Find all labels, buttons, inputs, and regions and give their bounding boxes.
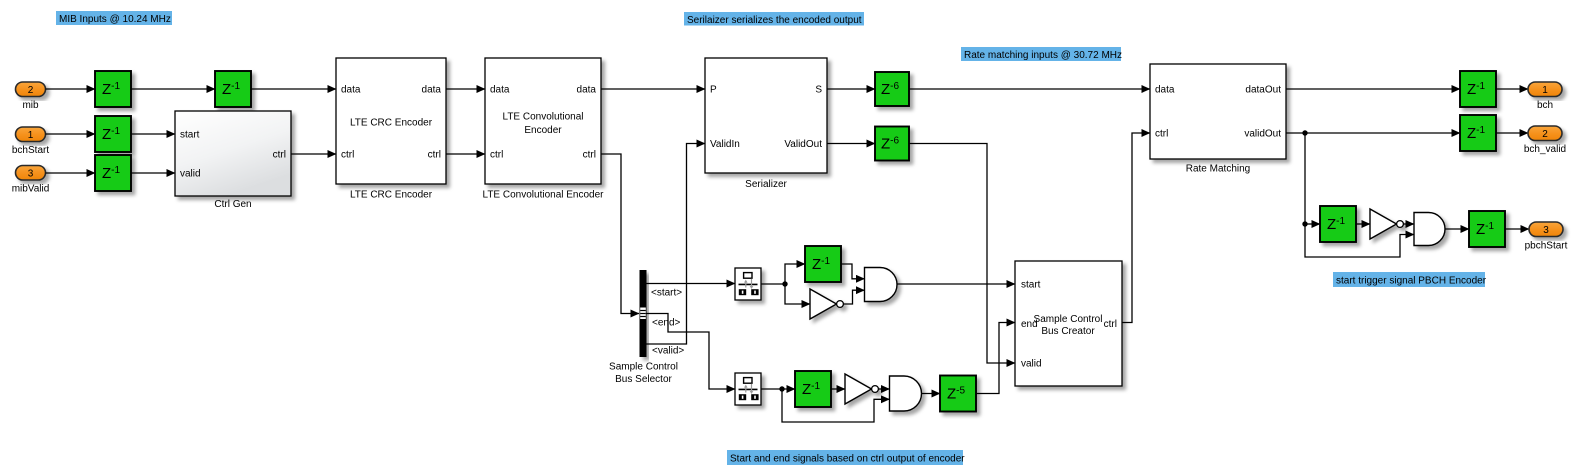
annotation: Start and end signals based on ctrl output of encoder (727, 450, 965, 465)
svg-text:MIB Inputs @ 10.24 MHz: MIB Inputs @ 10.24 MHz (59, 14, 171, 25)
svg-text:2: 2 (28, 85, 34, 96)
svg-text:ctrl: ctrl (428, 150, 441, 161)
svg-text:ctrl: ctrl (1104, 319, 1117, 330)
svg-text:Start and end signals based on: Start and end signals based on ctrl outp… (730, 454, 965, 465)
svg-text:1: 1 (28, 130, 34, 141)
wire icon2 to end-path branch (761, 388, 795, 390)
svg-text:mibValid: mibValid (12, 184, 50, 195)
wire AND3 to delay Z-1 pbch (1445, 228, 1469, 230)
svg-text:dataOut: dataOut (1245, 85, 1281, 96)
svg-text:mib: mib (22, 100, 39, 111)
delay block Z-5 (940, 376, 976, 412)
svg-text:pbchStart: pbchStart (1525, 241, 1568, 252)
svg-text:start: start (180, 130, 200, 141)
AND gate 1 (865, 268, 898, 302)
conversion icon block 2 (735, 373, 761, 405)
wire delay start to AND1 input1 (841, 264, 865, 279)
conversion icon block 1 (735, 268, 761, 300)
inport 3 mibValid (12, 166, 50, 195)
delay block Z-1 pbch (1469, 211, 1505, 247)
wire Bus Selector valid output to Serializer ValidIn (647, 144, 706, 345)
svg-text:ctrl: ctrl (341, 150, 354, 161)
wire NOT2 to AND2 input1 (878, 388, 889, 390)
svg-text:LTE Convolutional Encoder: LTE Convolutional Encoder (483, 190, 605, 201)
svg-text:Rate matching inputs @ 30.72 M: Rate matching inputs @ 30.72 MHz (964, 50, 1122, 61)
svg-text:ValidIn: ValidIn (710, 139, 740, 150)
svg-text:bchStart: bchStart (12, 145, 49, 156)
svg-text:Bus Selector: Bus Selector (615, 374, 672, 385)
wire Serializer S to delay Z-6 data (827, 88, 875, 90)
wire Bus Selector start output to conversion icon 1 (647, 283, 736, 285)
subsystem LTE Convolutional Encoder (483, 58, 605, 201)
wire trigger branch to delay Z-1 trig (1305, 223, 1320, 225)
NOT gate 3 (1370, 209, 1403, 239)
wire validOut branch down to trigger branch (1304, 133, 1306, 224)
wire AND1 to Bus Creator start (897, 283, 1015, 285)
wire Z-1 bch_valid to outport 2 (1496, 132, 1528, 134)
svg-text:start trigger signal PBCH Enco: start trigger signal PBCH Encoder (1336, 276, 1487, 287)
delay block Z-1 bch (1460, 71, 1496, 107)
wire delay a2 to CRC data (251, 88, 336, 90)
wire branch bypass to AND2 input2 (782, 389, 890, 422)
wire bchStart to delay Z-1 b1 (46, 133, 96, 135)
svg-text:<start>: <start> (651, 288, 682, 299)
wire Bus Selector end output to conversion icon 2 (647, 314, 736, 390)
wire Z-1 bch to outport 1 (1496, 88, 1528, 90)
delay block Z-1 b1 (95, 116, 131, 152)
svg-text:ctrl: ctrl (583, 150, 596, 161)
wire Conv ctrl to Bus Selector input (601, 154, 639, 314)
wire mibValid to delay Z-1 c1 (46, 172, 96, 174)
outport 1 bch (1528, 82, 1562, 111)
svg-text:LTE Convolutional: LTE Convolutional (503, 112, 584, 123)
svg-text:LTE CRC Encoder: LTE CRC Encoder (350, 190, 433, 201)
svg-text:bch_valid: bch_valid (1524, 144, 1566, 155)
svg-text:bch: bch (1537, 100, 1553, 111)
wire Z-6 data to Rate Matching data (909, 88, 1150, 90)
outport 2 bch_valid (1524, 126, 1566, 155)
svg-text:ValidOut: ValidOut (784, 139, 822, 150)
delay block Z-1 end (795, 371, 831, 407)
svg-text:3: 3 (28, 169, 34, 180)
delay block Z-1 a1 (95, 71, 131, 107)
wire Serializer ValidOut to delay Z-6 valid (827, 143, 875, 145)
annotation: MIB Inputs @ 10.24 MHz (56, 11, 172, 25)
annotation: Serilaizer serializes the encoded output (684, 12, 864, 26)
svg-text:data: data (1155, 85, 1175, 96)
svg-text:data: data (577, 85, 597, 96)
svg-text:P: P (710, 85, 717, 96)
svg-text:Encoder: Encoder (524, 125, 562, 136)
subsystem Rate Matching (1150, 64, 1286, 175)
wire NOT3 to AND3 input1 (1403, 223, 1414, 225)
NOT gate 2 (845, 374, 878, 404)
wire Conv data to Serializer P (601, 88, 705, 90)
delay block Z-6 data (875, 72, 909, 106)
svg-text:LTE CRC Encoder: LTE CRC Encoder (350, 118, 433, 129)
wire NOT1 to AND1 input2 (843, 290, 864, 304)
outport 3 pbchStart (1525, 222, 1568, 252)
wire Bus Creator ctrl to Rate Matching ctrl (1122, 133, 1150, 323)
svg-text:data: data (490, 85, 510, 96)
delay block Z-1 a2 (215, 71, 251, 107)
wire branch to NOT gate 1 (785, 284, 810, 304)
svg-text:3: 3 (1543, 225, 1549, 236)
annotation: Rate matching inputs @ 30.72 MHz (961, 47, 1122, 61)
wire CRC data to Conv data (446, 88, 485, 90)
svg-text:2: 2 (1542, 129, 1548, 140)
subsystem Serializer (705, 58, 827, 190)
AND gate 2 (890, 376, 922, 411)
svg-text:S: S (815, 85, 822, 96)
delay block Z-1 trig (1320, 206, 1356, 242)
wire icon1 to start-path branch (761, 283, 785, 285)
delay block Z-1 bch_valid (1460, 115, 1496, 151)
wire Z-6 valid to Bus Creator valid (909, 144, 1015, 364)
svg-text:data: data (341, 85, 361, 96)
junction end-path branch (779, 386, 784, 391)
junction validOut branch (1302, 130, 1307, 135)
wire delay trig to NOT gate 3 (1356, 223, 1370, 225)
svg-text:Serilaizer serializes the enco: Serilaizer serializes the encoded output (687, 15, 862, 26)
subsystem Ctrl Gen (175, 111, 291, 210)
wire CRC ctrl to Conv ctrl (446, 153, 485, 155)
delay block Z-1 start (805, 246, 841, 282)
subsystem LTE CRC Encoder (336, 58, 446, 201)
wire trigger branch bypass to AND3 input2 (1305, 224, 1414, 257)
svg-text:Ctrl Gen: Ctrl Gen (214, 199, 251, 210)
svg-text:Serializer: Serializer (745, 179, 787, 190)
junction trigger branch (1302, 221, 1307, 226)
svg-text:ctrl: ctrl (273, 150, 286, 161)
svg-text:valid: valid (1021, 359, 1042, 370)
wire AND2 to delay Z-5 (922, 393, 941, 395)
wire Rate Matching dataOut to delay Z-1 bch (1286, 88, 1460, 90)
wire Rate Matching validOut to delay Z-1 bch_valid (1286, 132, 1460, 134)
svg-text:Sample Control: Sample Control (1034, 314, 1103, 325)
inport 1 bchStart (12, 127, 49, 156)
svg-text:data: data (422, 85, 442, 96)
wire Z-5 to Bus Creator end (976, 323, 1015, 394)
svg-text:validOut: validOut (1244, 129, 1281, 140)
bus selector bar Sample Control Bus Selector (609, 270, 678, 385)
AND gate 3 (1414, 213, 1445, 246)
wire delay end to NOT gate 2 (831, 388, 845, 390)
wire Ctrl Gen ctrl to CRC ctrl (291, 153, 336, 155)
wire branch to delay Z-1 start (785, 264, 805, 284)
wire delay b1 to Ctrl Gen start (131, 133, 175, 135)
svg-text:<end>: <end> (652, 318, 681, 329)
svg-text:ctrl: ctrl (490, 150, 503, 161)
svg-text:Sample Control: Sample Control (609, 362, 678, 373)
svg-text:ctrl: ctrl (1155, 129, 1168, 140)
NOT gate 1 (810, 289, 843, 319)
inport 2 mib (16, 82, 46, 111)
svg-text:Rate Matching: Rate Matching (1186, 164, 1250, 175)
wire mib to delay Z-1 a1 (46, 88, 96, 90)
delay block Z-6 valid (875, 127, 909, 161)
svg-text:1: 1 (1542, 85, 1548, 96)
wire delay c1 to Ctrl Gen valid (131, 172, 175, 174)
annotation: start trigger signal PBCH Encoder (1333, 272, 1487, 287)
junction start-path branch (782, 281, 787, 286)
svg-text:start: start (1021, 280, 1041, 291)
subsystem Sample Control Bus Creator (1015, 261, 1122, 386)
svg-text:Bus Creator: Bus Creator (1041, 326, 1095, 337)
svg-text:<valid>: <valid> (652, 346, 684, 357)
delay block Z-1 c1 (95, 155, 131, 191)
wire Z-1 pbch to outport 3 (1505, 228, 1529, 230)
wire delay a1 to delay a2 (131, 88, 215, 90)
svg-text:valid: valid (180, 169, 201, 180)
